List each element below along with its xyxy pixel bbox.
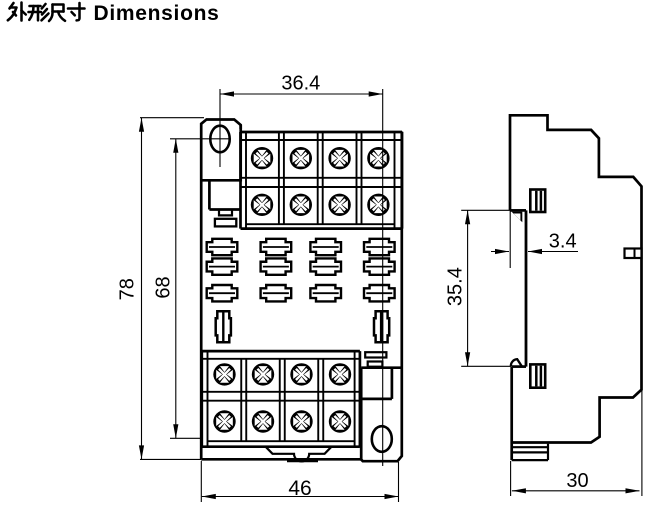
svg-text:30: 30 [566,470,588,492]
svg-text:68: 68 [153,276,175,298]
svg-text:3.4: 3.4 [549,231,577,253]
svg-text:36.4: 36.4 [281,73,320,95]
svg-text:Dimensions: Dimensions [94,2,220,25]
svg-text:35.4: 35.4 [445,267,467,306]
svg-text:78: 78 [117,278,139,300]
svg-text:46: 46 [288,477,311,500]
